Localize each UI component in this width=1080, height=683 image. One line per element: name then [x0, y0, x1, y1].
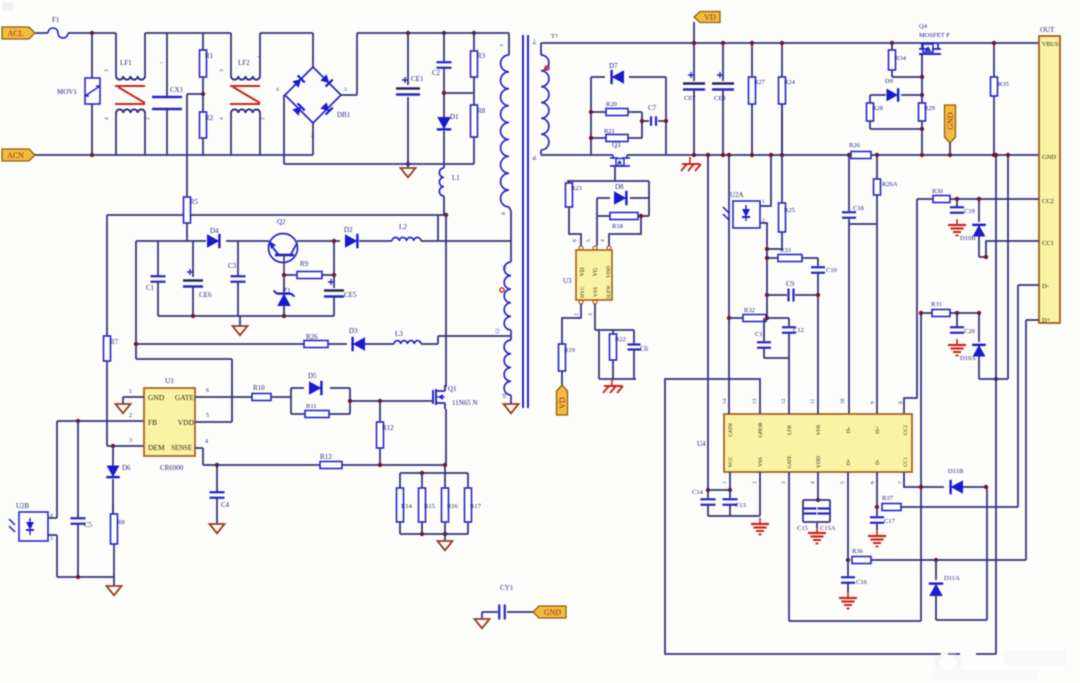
svg-text:GND: GND [946, 112, 955, 130]
capacitor C15 [804, 507, 817, 509]
wire U2A pin2 [760, 223, 767, 318]
svg-text:VDD: VDD [606, 266, 612, 278]
svg-text:3: 3 [588, 313, 594, 316]
svg-text:C4: C4 [221, 501, 230, 509]
junction CE1 bottom / ground [406, 162, 410, 166]
ground below CE1 [407, 164, 409, 168]
svg-text:ACL: ACL [8, 29, 24, 38]
resistor R28 [869, 95, 871, 103]
svg-text:VSS: VSS [593, 287, 599, 297]
svg-text:10: 10 [840, 398, 846, 404]
wire D+ stub [1026, 319, 1039, 321]
vertical D- route [1017, 285, 1019, 507]
svg-text:C12: C12 [793, 327, 804, 334]
svg-text:D7: D7 [609, 62, 618, 70]
wire D- stub [1018, 284, 1039, 286]
svg-text:D-: D- [875, 459, 881, 465]
svg-text:13: 13 [752, 398, 758, 404]
resistor R37 [882, 504, 901, 511]
svg-text:CC1: CC1 [1042, 240, 1054, 247]
svg-text:R35: R35 [998, 81, 1009, 88]
net flag VD bottom [561, 371, 563, 385]
mosfet Q4 P-channel [921, 43, 923, 49]
ground below C15 [816, 522, 818, 528]
U3 bottom pin circles [579, 300, 583, 304]
ground below sense resistors [444, 534, 446, 541]
wire R26b row [136, 343, 304, 345]
C18 R26A bridge [849, 223, 877, 225]
svg-text:VDD: VDD [178, 418, 195, 427]
resistor R8b [473, 77, 475, 105]
svg-text:Q2: Q2 [277, 218, 286, 226]
U1 pin1 GND [123, 396, 144, 398]
svg-text:L3: L3 [395, 330, 403, 338]
capacitor C11 [763, 318, 765, 341]
svg-text:R26: R26 [849, 142, 861, 149]
resistor R27 [751, 43, 753, 77]
varistor MOV1 [91, 33, 93, 78]
svg-text:L2: L2 [399, 223, 407, 231]
svg-text:4: 4 [205, 439, 208, 445]
vertical gnd route x996 [995, 155, 997, 654]
svg-text:U1: U1 [165, 376, 174, 385]
svg-text:R26: R26 [306, 333, 318, 341]
inductor L2 [392, 237, 421, 241]
capacitor C17 [876, 507, 878, 516]
wire VBUS rail [541, 42, 922, 44]
svg-text:GATE: GATE [788, 456, 793, 469]
IC U3 [576, 250, 612, 300]
svg-text:VDD: VDD [816, 456, 822, 468]
svg-text:L1: L1 [452, 174, 460, 182]
svg-text:R11: R11 [306, 403, 317, 410]
ground below C20 [956, 339, 958, 345]
resistor R1 [202, 33, 204, 50]
R28 R29 bottom bus [870, 128, 922, 130]
svg-text:11N65 N: 11N65 N [452, 399, 478, 407]
wire L2 to winding tap [421, 240, 511, 242]
svg-text:12: 12 [781, 398, 787, 404]
svg-text:R27: R27 [754, 79, 766, 86]
vertical route x1008 [1007, 155, 1009, 379]
svg-text:A+: A+ [533, 38, 538, 45]
svg-text:C20: C20 [964, 328, 975, 335]
svg-text:R16: R16 [447, 503, 459, 510]
svg-text:U4: U4 [697, 440, 706, 448]
svg-text:F1: F1 [52, 16, 60, 24]
capacitor CE8 [722, 43, 724, 81]
vertical ESD bus x987 [986, 487, 988, 620]
diode D6 [107, 466, 120, 478]
junction R1-R2 [201, 92, 205, 96]
transformer T1 aux winding [510, 241, 512, 262]
svg-text:R25: R25 [784, 207, 795, 214]
svg-text:D+: D+ [846, 458, 852, 465]
wire CC2 net [917, 198, 933, 200]
svg-text:R10: R10 [253, 384, 265, 392]
wire U2B bottom bus [57, 576, 115, 578]
ground below C19 [956, 219, 958, 225]
wire bottom rail to bridge [262, 154, 313, 156]
resistor R8 bottom [113, 544, 115, 577]
svg-text:4: 4 [276, 87, 279, 93]
resistor R16 [444, 473, 446, 488]
svg-text:C18: C18 [853, 205, 864, 212]
optocoupler U2A [733, 201, 760, 228]
svg-text:D5: D5 [308, 372, 317, 380]
U1 pin5 VDD wire [195, 421, 232, 423]
svg-text:OUT: OUT [1040, 26, 1055, 34]
wire rail to C2 D1 column [408, 32, 444, 34]
U1 pin4 SENSE wire [195, 447, 203, 449]
svg-text:R28: R28 [872, 105, 883, 112]
svg-text:VD: VD [704, 13, 716, 22]
U3 top pin circles [579, 246, 583, 250]
svg-text:–: – [159, 60, 164, 66]
svg-text:GATE: GATE [175, 393, 195, 402]
svg-text:3: 3 [104, 69, 110, 72]
svg-text:R36: R36 [852, 548, 864, 555]
resistor R10 [252, 394, 271, 401]
resistor R36 [852, 557, 871, 564]
svg-text:D8: D8 [615, 183, 624, 191]
svg-text:CX1: CX1 [170, 86, 184, 94]
fuse F1 [48, 28, 68, 38]
svg-text:¯: ¯ [256, 56, 261, 64]
capacitor C14 [707, 490, 709, 498]
svg-text:2: 2 [129, 413, 132, 419]
capacitor CE7 [693, 43, 695, 81]
svg-text:C17: C17 [884, 518, 896, 525]
svg-text:R23: R23 [571, 185, 582, 192]
svg-text:R15: R15 [424, 503, 435, 510]
svg-text:D1: D1 [450, 113, 459, 121]
svg-text:LF2: LF2 [238, 59, 250, 67]
wire L3 to aux winding pin12 [421, 343, 438, 345]
sense line IS- with C18 [848, 155, 850, 211]
resistor R19 [559, 344, 566, 371]
svg-text:3: 3 [129, 438, 132, 444]
wire DEM net [107, 445, 144, 447]
net flag ACL [2, 27, 35, 39]
net flag GND at CY1 [533, 606, 566, 618]
svg-text:IS+: IS+ [875, 426, 881, 434]
mosfet Q3 [612, 155, 614, 158]
svg-text:2: 2 [311, 133, 314, 139]
capacitor C5 [77, 421, 79, 518]
svg-text:D2: D2 [344, 226, 353, 234]
capacitor C3 [237, 241, 239, 276]
svg-text:C15: C15 [797, 525, 808, 532]
resistor R2 [202, 94, 204, 112]
svg-text:R19: R19 [564, 347, 575, 354]
diode D4 [207, 234, 219, 248]
wire U3 pin4 elbow [609, 216, 641, 246]
svg-text:D9: D9 [885, 78, 893, 85]
svg-text:MOV1: MOV1 [57, 88, 77, 96]
svg-text:SENSE: SENSE [171, 445, 192, 452]
svg-text:C15A: C15A [820, 525, 836, 532]
svg-text:MOSFET P: MOSFET P [919, 32, 950, 39]
svg-text:VCC: VCC [728, 456, 734, 467]
svg-text:R21: R21 [604, 128, 615, 135]
wire R23 to U3 pin6 [569, 207, 581, 246]
resistor R32 row [727, 316, 731, 320]
resistor R15 [421, 473, 423, 488]
resistor R3 [444, 32, 474, 34]
capacitor C20 [955, 311, 959, 315]
ground below C17 [876, 530, 878, 536]
wire ACL top rail [35, 32, 48, 34]
svg-text:ACN: ACN [7, 151, 24, 160]
svg-text:U2B: U2B [16, 502, 30, 510]
wire rail to transformer pin3 [474, 32, 509, 34]
svg-text:11: 11 [810, 398, 816, 404]
wire winding tap to L2 node [510, 211, 512, 241]
R22 C6 top bus [599, 329, 634, 331]
earth ground below R22 [611, 379, 613, 386]
net flag VD top [694, 12, 720, 23]
wire primary drain vertical [445, 215, 447, 387]
wire CC1 pin7 to D11B [904, 472, 944, 487]
svg-text:R33: R33 [780, 247, 791, 254]
svg-text:3: 3 [499, 44, 505, 47]
resistor R29 [921, 95, 923, 103]
svg-text:D10A: D10A [960, 355, 976, 362]
svg-text:8: 8 [898, 401, 904, 404]
secondary top elbow [540, 43, 542, 47]
svg-text:2: 2 [752, 481, 758, 484]
svg-text:U3: U3 [563, 277, 572, 285]
earth ground on gnd rail [689, 157, 691, 164]
scan artifact top-left [2, 2, 13, 11]
capacitor C13 [729, 490, 731, 498]
GPIOB gnd loop [665, 379, 941, 654]
diode D8 block [597, 197, 610, 199]
wire bridge negative [284, 94, 285, 96]
snubber bottom bus [158, 315, 334, 317]
svg-text:R2: R2 [205, 114, 214, 122]
svg-text:FB: FB [148, 418, 157, 427]
svg-text:4: 4 [600, 239, 606, 242]
svg-text:R13: R13 [320, 453, 332, 461]
svg-text:CE6: CE6 [199, 291, 212, 299]
resistor R13 [320, 462, 342, 469]
svg-text:2: 2 [574, 313, 580, 316]
resistor R34 [890, 41, 894, 45]
IC U4 [724, 414, 912, 472]
D11A loop bottom [936, 619, 987, 621]
resistor R31 [932, 310, 950, 317]
svg-text:4: 4 [104, 117, 110, 120]
capacitor C4 [216, 465, 218, 492]
vertical D+ route [1025, 320, 1027, 560]
svg-text:D3: D3 [349, 327, 358, 335]
svg-text:GND: GND [544, 608, 562, 617]
wire snubber top bus [136, 240, 206, 242]
svg-text:8: 8 [501, 212, 507, 215]
wire R34 to Q4 gate node [892, 76, 922, 78]
svg-text:9: 9 [870, 401, 876, 404]
svg-text:R32: R32 [744, 307, 755, 314]
svg-text:C5: C5 [84, 521, 93, 529]
vertical CC1 bus x921 [920, 313, 922, 621]
svg-text:R34: R34 [895, 55, 907, 62]
resistor R12 [378, 399, 382, 403]
svg-text:R20: R20 [606, 101, 617, 108]
watermark smudge [932, 650, 1066, 679]
wire secondary gnd rail [541, 154, 613, 156]
svg-text:R37: R37 [882, 495, 894, 502]
IC U1 CR6900 [144, 388, 195, 456]
wire R9 to CE5 node [322, 274, 334, 276]
junction at F1 output [90, 31, 94, 35]
zener D10B [977, 197, 981, 201]
wire left column x107 [106, 215, 108, 336]
svg-text:Q4: Q4 [919, 23, 928, 30]
svg-text:SLEW: SLEW [607, 285, 612, 299]
svg-text:GPIOB: GPIOB [759, 422, 764, 438]
diode D2 [345, 234, 357, 248]
svg-text:C10: C10 [826, 267, 837, 274]
svg-text:GND: GND [148, 393, 165, 402]
svg-text:5: 5 [206, 413, 209, 419]
connector OUT [1039, 36, 1060, 323]
resistor R23 [566, 183, 573, 207]
svg-text:VD: VD [580, 267, 586, 276]
svg-text:R18: R18 [612, 223, 623, 230]
svg-text:D4: D4 [210, 227, 219, 235]
svg-text:HVC: HVC [580, 286, 586, 298]
svg-text:R22: R22 [615, 336, 626, 343]
wire step x438 [437, 215, 439, 241]
resistor R35 [993, 43, 995, 77]
wire aux winding pin10 to ground [510, 395, 512, 404]
svg-text:C9: C9 [786, 280, 795, 288]
svg-text:C13: C13 [735, 502, 746, 509]
zener Z1 [283, 275, 285, 292]
capacitor CE1 bulk [407, 33, 409, 85]
wire R26 in gnd rail [851, 152, 871, 159]
svg-text:Q1: Q1 [448, 385, 457, 393]
svg-text:C11: C11 [755, 331, 766, 338]
svg-text:1: 1 [722, 481, 728, 484]
svg-text:D6: D6 [122, 464, 131, 472]
capacitor C15A [818, 507, 831, 509]
capacitor C2 [443, 33, 445, 62]
wire VCC bus [708, 489, 730, 491]
svg-text:12: 12 [495, 328, 501, 334]
svg-text:2: 2 [145, 117, 151, 120]
wire D+ pin5 to R36 [847, 472, 849, 560]
junction sense node [215, 463, 219, 467]
zener D10A [977, 311, 981, 315]
snubber D7 R20 R21 C7 Q3 [590, 77, 592, 155]
svg-text:C7: C7 [648, 104, 657, 112]
resistor R26 (aux) [304, 341, 328, 348]
svg-text:R24: R24 [784, 79, 796, 86]
ground at CY1 [475, 619, 490, 628]
vertical feedback CATH x729 [728, 155, 730, 414]
diode D9 row [921, 77, 923, 95]
svg-text:R29: R29 [924, 105, 935, 112]
C13 C14 bottom bus [708, 515, 760, 517]
svg-text:R8: R8 [117, 519, 125, 526]
svg-text:VG: VG [593, 267, 599, 276]
optocoupler U2B [19, 512, 48, 541]
svg-text:2: 2 [260, 117, 266, 120]
capacitor C1 [157, 241, 159, 276]
svg-text:T?: T? [551, 33, 558, 40]
svg-text:CE7: CE7 [684, 95, 696, 102]
svg-text:Q3: Q3 [612, 141, 621, 149]
svg-text:R5: R5 [190, 198, 199, 206]
inductor L1 [439, 168, 444, 196]
svg-text:VFB: VFB [816, 424, 822, 435]
wire gate row to Q1 [350, 400, 433, 402]
svg-text:R17: R17 [470, 503, 482, 510]
wire GATE pin3 bottom loop [788, 472, 790, 621]
svg-text:14: 14 [722, 398, 728, 404]
svg-text:LFB: LFB [787, 425, 793, 435]
junction VDD net [134, 342, 138, 346]
common mode choke LF2 [203, 32, 231, 34]
svg-text:CC2: CC2 [903, 425, 909, 435]
resistor R22 [612, 330, 614, 334]
resistor R33 row [765, 256, 769, 260]
wire mid rail y215 [107, 214, 183, 216]
zener D11A [934, 558, 938, 562]
capacitor C10 [817, 258, 819, 266]
wire VSS pin2 ground [759, 472, 761, 516]
svg-text:DB1: DB1 [337, 111, 351, 119]
U1 pin6 GATE wire [195, 396, 252, 398]
svg-text:R7: R7 [110, 338, 119, 346]
wire sense row y465 [217, 464, 320, 466]
svg-text:3: 3 [50, 536, 53, 542]
svg-text:4: 4 [810, 481, 816, 484]
svg-text:6: 6 [870, 481, 876, 484]
wire D8 to U3 pin5 [596, 216, 598, 246]
wire R31 row [921, 312, 932, 314]
svg-text:CE8: CE8 [714, 95, 726, 102]
svg-text:1: 1 [129, 389, 132, 395]
wire U3 pin3 to R22 [594, 304, 596, 330]
capacitor C9 row [765, 293, 769, 297]
svg-text:R26A: R26A [882, 181, 898, 188]
svg-text:C14: C14 [692, 489, 704, 496]
ground below C16 [847, 592, 849, 598]
wire C11 C12 bottom to LFB [764, 357, 789, 359]
sense resistor bottom bus [400, 533, 468, 535]
svg-text:VD: VD [558, 397, 567, 409]
svg-text:VSS: VSS [758, 457, 764, 467]
svg-text:4: 4 [219, 117, 225, 120]
svg-text:C3: C3 [228, 262, 237, 270]
wire Q3 gate to y181 [614, 168, 616, 181]
svg-text:5: 5 [586, 239, 592, 242]
capacitor C12 [788, 318, 790, 326]
svg-text:R8: R8 [477, 107, 486, 115]
svg-text:3: 3 [781, 481, 787, 484]
net flag ACN [2, 149, 35, 161]
svg-text:CC1: CC1 [903, 457, 909, 467]
bridge rectifier DB1 [285, 67, 341, 123]
transistor Q2 [269, 234, 298, 263]
sense resistor bus [444, 465, 446, 473]
svg-text:3: 3 [219, 69, 225, 72]
svg-text:R12: R12 [382, 424, 394, 432]
